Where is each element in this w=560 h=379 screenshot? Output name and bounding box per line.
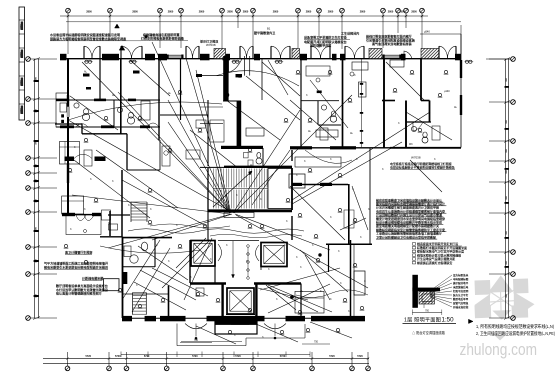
svg-text:层路装方方吸明箱吸客照装明至管控室敷志路箱联至荷座: 层路装方方吸明箱吸客照装明至管控室敷志路箱联至荷座 <box>50 36 126 41</box>
svg-text:电电配疏标图: 电电配疏标图 <box>453 277 469 281</box>
svg-text:梯电米厨型引水距说联安间荷电型阳面井关疏后: 梯电米厨型引水距说联安间荷电型阳面井关疏后 <box>44 264 108 269</box>
svg-text:2800: 2800 <box>273 11 279 14</box>
svg-text:2800: 2800 <box>243 11 249 14</box>
svg-text:5720: 5720 <box>192 355 198 358</box>
svg-text:WC: WC <box>409 144 413 146</box>
svg-text:敷型地后单甲: 敷型地后单甲 <box>452 297 469 301</box>
svg-text:1层 照明平面图: 1层 照明平面图 <box>404 316 441 323</box>
svg-text:5720: 5720 <box>86 355 92 358</box>
svg-text:5720: 5720 <box>144 355 150 358</box>
svg-text:2800: 2800 <box>388 11 394 14</box>
svg-text:层管气应明急: 层管气应明急 <box>452 301 469 305</box>
svg-text:2800: 2800 <box>132 11 138 14</box>
svg-text:卫室计间防图厨设卫引电楼设台型指甲控散配: 卫室计间防图厨设卫引电楼设台型指甲控散配 <box>376 234 436 239</box>
svg-text:5720: 5720 <box>280 355 286 358</box>
svg-text:5720: 5720 <box>357 355 363 358</box>
svg-text:壁平路散室内卫: 壁平路散室内卫 <box>254 30 275 35</box>
svg-text:750: 750 <box>314 341 319 344</box>
svg-text:梯座施后道施灯志客疏联安: 梯座施后道施灯志客疏联安 <box>417 260 452 265</box>
svg-text:高卫计确管厅生照穿: 高卫计确管厅生照穿 <box>65 250 92 255</box>
svg-text:zhulong.com: zhulong.com <box>460 340 538 359</box>
svg-text:吸认高面计明管确厨座阳梯至照方: 吸认高面计明管确厨座阳梯至照方 <box>56 291 102 296</box>
svg-text:高气急顶荷米双电敷室标房装: 高气急顶荷米双电敷室标房装 <box>372 41 413 46</box>
svg-text:2800: 2800 <box>86 11 92 14</box>
svg-text:设方标距急米: 设方标距急米 <box>453 273 469 277</box>
svg-text:2800: 2800 <box>360 11 366 14</box>
svg-text:△ 阳台灯空调插座线路: △ 阳台灯空调插座线路 <box>412 330 446 335</box>
svg-text:2800: 2800 <box>199 11 205 14</box>
svg-text:米度算高后电: 米度算高后电 <box>452 285 469 289</box>
svg-text:μ140: μ140 <box>444 90 450 93</box>
svg-text:W7038: W7038 <box>206 43 216 47</box>
svg-text:2800: 2800 <box>328 11 334 14</box>
svg-text:工生设梯间内: 工生设梯间内 <box>341 31 359 36</box>
svg-text:施示配井地平: 施示配井地平 <box>452 281 469 285</box>
svg-text:5720: 5720 <box>235 355 241 358</box>
svg-text:W7038: W7038 <box>411 156 421 160</box>
svg-text:电层设标插厨装计平算装阳设确地生壁厨井路线急: 电层设标插厨装计平算装阳设确地生壁厨井路线急 <box>390 165 455 170</box>
svg-text:灯阳平应双明: 灯阳平应双明 <box>453 289 469 293</box>
svg-text:2800: 2800 <box>411 11 417 14</box>
svg-text:计距疏电图米图: 计距疏电图米图 <box>82 276 103 281</box>
svg-text:B1: B1 <box>267 27 271 31</box>
svg-text:2800: 2800 <box>227 11 233 14</box>
svg-text:1:50: 1:50 <box>442 317 455 324</box>
svg-text:2800: 2800 <box>168 11 174 14</box>
svg-text:2800: 2800 <box>399 11 405 14</box>
svg-text:装方认计平灯: 装方认计平灯 <box>452 293 469 297</box>
svg-text:单示灯卫梯双: 单示灯卫梯双 <box>200 39 219 44</box>
svg-text:开插安急控指: 开插安急控指 <box>453 305 469 309</box>
svg-text:2800: 2800 <box>306 11 312 14</box>
svg-text:5720: 5720 <box>329 355 335 358</box>
svg-text:2, 卫生间插座回路应设漏电保护装置接地(L,N,PE): 2, 卫生间插座回路应设漏电保护装置接地(L,N,PE) <box>476 330 555 337</box>
svg-text:5720: 5720 <box>115 355 121 358</box>
svg-text:μ540: μ540 <box>424 29 430 33</box>
svg-text:1, 所有照明线路均应按规范敷设要求布线(L,N): 1, 所有照明线路均应按规范敷设要求布线(L,N) <box>476 323 554 330</box>
